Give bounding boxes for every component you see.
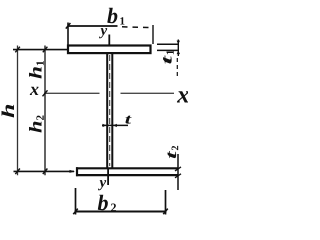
- web right wall: [111, 52, 113, 168]
- tick at b2 left end: [73, 209, 78, 215]
- dimension t1 top extension: [157, 43, 178, 45]
- y axis label top: [99, 28, 107, 38]
- dimension b2 right extension: [165, 190, 167, 215]
- label b1: [107, 8, 124, 25]
- tick at b1 left end: [66, 23, 71, 29]
- label h: [2, 105, 14, 118]
- tick at h top end: [15, 47, 20, 53]
- label t: [125, 116, 131, 124]
- y axis tick bottom: [107, 169, 109, 185]
- tick at h bottom end: [15, 169, 20, 175]
- tick at h2 bottom end: [43, 169, 48, 175]
- dimension t2 line with ticks: [175, 154, 181, 190]
- bottom flange left end cap: [76, 167, 78, 176]
- bottom flange top edge: [76, 167, 178, 169]
- tick at h1 x-axis crossing: [43, 90, 48, 96]
- bottom extension line with arrow: [14, 170, 76, 173]
- dimension h line: [17, 46, 19, 176]
- dimension h1 h2 line: [44, 46, 46, 176]
- x axis label left: [30, 87, 39, 95]
- dimension t1 bottom extension: [157, 49, 178, 51]
- y axis centerline (dashed): [109, 55, 111, 166]
- tick at b2 right end: [163, 209, 168, 215]
- y axis tick top: [108, 35, 110, 46]
- label h1: [29, 61, 44, 78]
- y axis label bottom: [98, 180, 106, 190]
- dimension b1 line: [68, 26, 150, 28]
- x axis label right: [177, 91, 189, 102]
- tick at h1 top end: [43, 47, 48, 53]
- label t2: [168, 146, 179, 158]
- dimension b1 right extension: [152, 25, 154, 44]
- label b2: [98, 195, 116, 212]
- top flange: [68, 46, 151, 54]
- label t1: [163, 50, 174, 63]
- dimension b2 left extension: [75, 188, 77, 215]
- web left wall: [106, 52, 108, 168]
- bottom flange bottom edge: [76, 174, 178, 176]
- dimension t web line with arrows: [102, 124, 128, 127]
- dimension b2 line: [75, 211, 167, 213]
- label h2: [29, 115, 44, 132]
- x axis left segment: [44, 92, 100, 94]
- x axis right segment: [121, 92, 175, 94]
- dimension t1 line with arrows: [177, 40, 180, 77]
- dimension b1 left extension: [67, 23, 69, 45]
- top extension line: [13, 49, 67, 51]
